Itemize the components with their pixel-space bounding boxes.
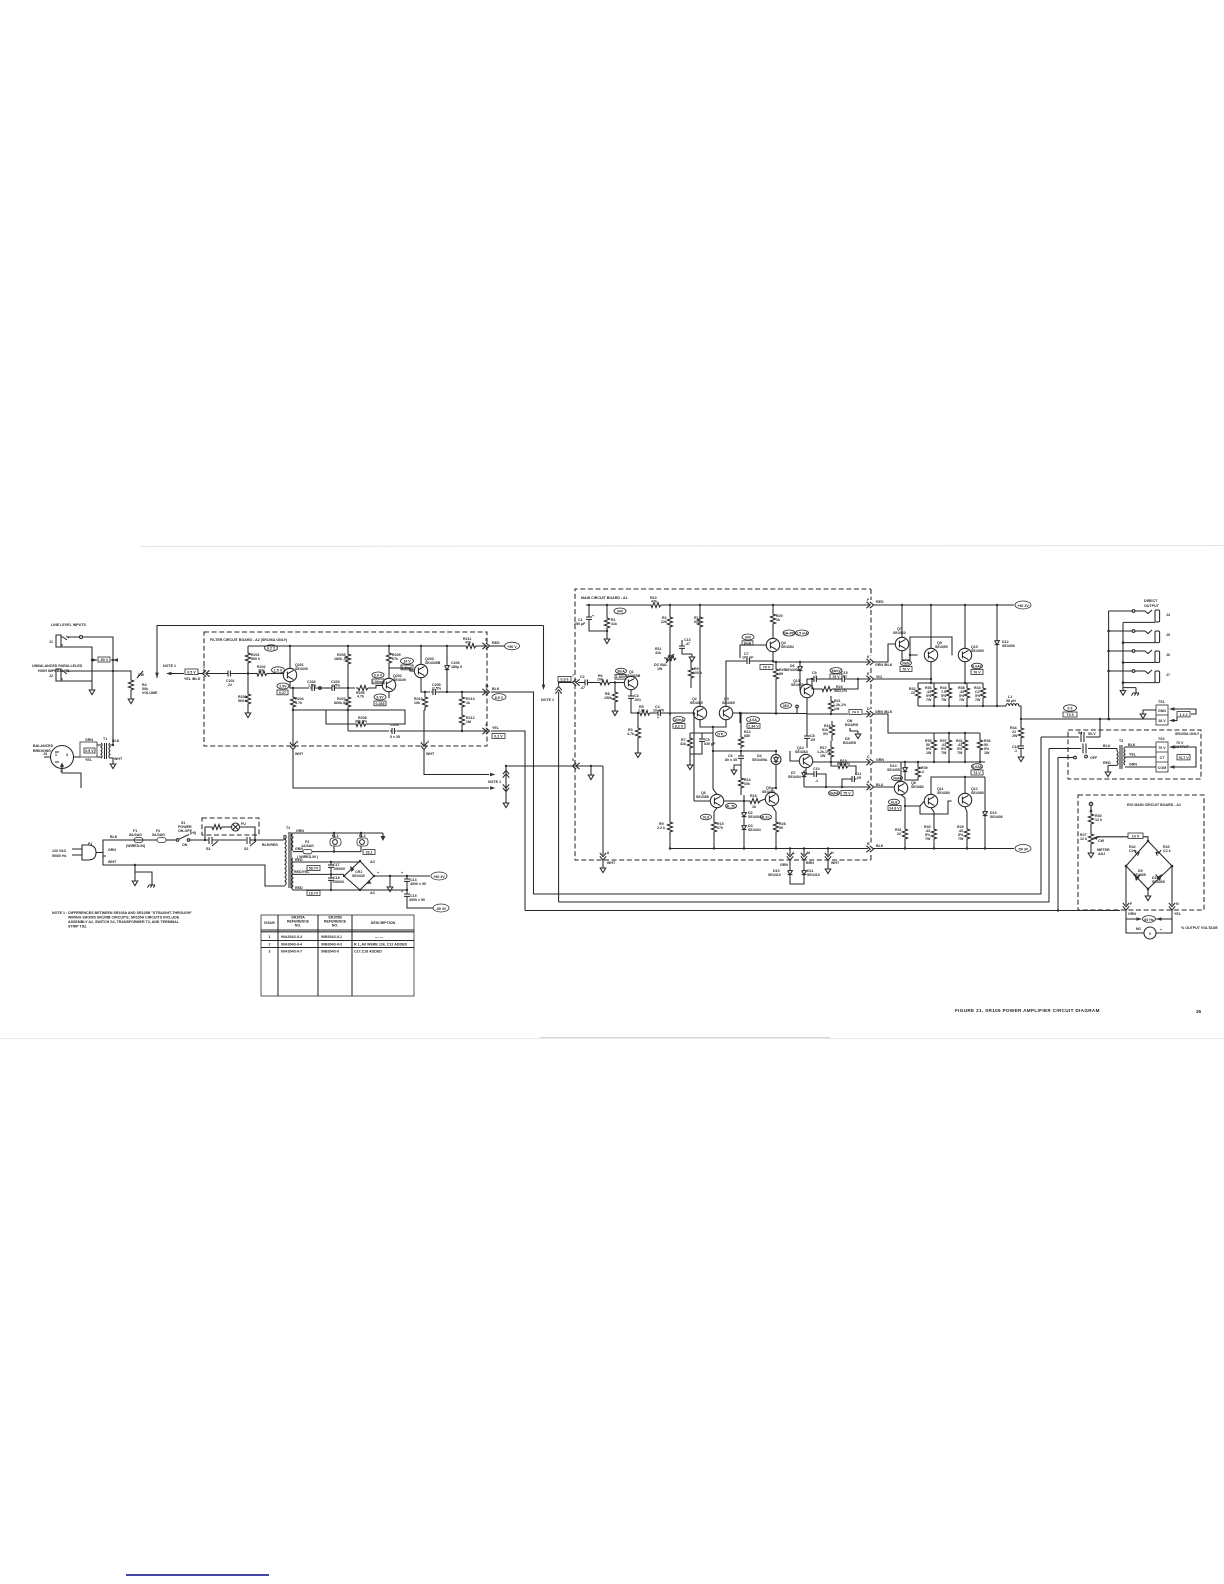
lower driver base link	[905, 801, 952, 814]
svg-text:SE4364: SE4364	[795, 750, 808, 754]
diode D2	[743, 795, 745, 811]
diode D4 in circle	[775, 751, 777, 754]
filter output YEL wire	[348, 730, 485, 732]
metering bridge	[1126, 841, 1172, 889]
resistor R212	[461, 709, 463, 713]
oval OTL	[716, 731, 727, 737]
svg-text:GRN: GRN	[108, 848, 116, 852]
svg-text:BLK/RED: BLK/RED	[262, 843, 278, 847]
svg-text:560 k: 560 k	[251, 657, 260, 661]
resistor R42 arm	[1134, 850, 1139, 856]
resistor R23	[812, 679, 820, 689]
svg-text:BLK: BLK	[1128, 743, 1136, 747]
bottom connector GRN	[787, 853, 793, 860]
svg-text:41k: 41k	[680, 742, 686, 746]
svg-text:COM: COM	[1158, 766, 1166, 770]
resistor R19	[836, 763, 848, 768]
resistor R207	[347, 688, 349, 695]
straight-through rail drop	[543, 626, 545, 686]
svg-text:90A3043-II-3: 90A3043-II-3	[281, 935, 302, 939]
svg-text:11: 11	[485, 684, 489, 688]
svg-text:VIO: VIO	[876, 675, 882, 679]
supply oval +50V psu	[431, 872, 447, 880]
svg-text:47k: 47k	[465, 641, 471, 645]
resistor R9	[690, 660, 692, 666]
oval 36V	[781, 703, 792, 709]
wire through 53V box	[92, 659, 113, 661]
jack J4	[1109, 610, 1132, 612]
svg-text:80 x 35: 80 x 35	[725, 758, 737, 762]
svg-text:PL2: PL2	[359, 834, 366, 838]
svg-text:0 6: 0 6	[1068, 707, 1073, 711]
svg-text:BRN: BRN	[806, 861, 814, 865]
supply oval +50V	[489, 645, 505, 647]
meter M1	[1126, 919, 1172, 933]
ground R203	[247, 706, 249, 710]
svg-text:SR105A ONLY: SR105A ONLY	[1175, 732, 1200, 736]
svg-text:8A/3AG: 8A/3AG	[129, 833, 142, 837]
box 74V on D line	[849, 710, 862, 715]
svg-text:SE4365: SE4365	[690, 701, 703, 705]
label box 53 V	[98, 657, 110, 662]
svg-text:ISSUE: ISSUE	[264, 921, 275, 925]
resistor R206	[356, 685, 368, 690]
svg-text:FILTER CIRCUIT BOARD - A2 (: FILTER CIRCUIT BOARD - A2 (SR106A ONLY)	[210, 638, 288, 642]
svg-text:C204: C204	[390, 723, 399, 727]
main board dashed outline	[575, 589, 871, 683]
transistor Q14	[799, 754, 812, 767]
oval NaN + box 76V under Q7	[901, 660, 912, 666]
svg-text:R 1, A9 WERE 12k, C12 ADDED: R 1, A9 WERE 12k, C12 ADDED	[354, 943, 407, 947]
svg-text:76 V: 76 V	[902, 668, 910, 672]
svg-text:4.7k: 4.7k	[627, 732, 634, 736]
bridge legs to meter	[1125, 866, 1127, 905]
svg-text:34mV: 34mV	[831, 669, 841, 673]
wire A BLU inside	[804, 786, 869, 788]
svg-text:N: N	[1176, 902, 1179, 906]
diode D11	[803, 861, 805, 870]
pin circle	[796, 705, 799, 708]
svg-text:0.2 V: 0.2 V	[494, 735, 503, 739]
svg-text:14 V: 14 V	[1132, 834, 1140, 838]
capacitor C203	[330, 685, 336, 691]
lower base bus	[934, 732, 980, 734]
svg-text:3: 3	[485, 723, 487, 727]
jack J2	[56, 669, 63, 681]
transistor Q7	[895, 637, 908, 650]
wire J3 to T1	[44, 756, 80, 758]
svg-text:J4: J4	[1166, 613, 1170, 617]
svg-text:— —: — —	[375, 935, 384, 939]
svg-text:1W: 1W	[834, 707, 840, 711]
svg-text:NOTE 1: NOTE 1	[488, 780, 501, 784]
resistor R43 arm	[1156, 850, 1161, 856]
oval 0L8 + box 24.8V	[889, 799, 900, 805]
svg-text:12 k: 12 k	[1095, 818, 1102, 822]
svg-text:PL1: PL1	[332, 834, 339, 838]
svg-text:UNBALANCED PARALLELED: UNBALANCED PARALLELED	[32, 664, 83, 668]
svg-text:GRN /BLK: GRN /BLK	[875, 710, 893, 714]
resistor R30	[1088, 812, 1093, 826]
svg-text:7W: 7W	[925, 837, 931, 841]
svg-text:TS2: TS2	[1158, 737, 1165, 741]
svg-text:WHT: WHT	[607, 861, 616, 865]
svg-text:7W: 7W	[959, 698, 965, 702]
bottom-left blue rule	[126, 1574, 269, 1576]
svg-text:A: A	[867, 780, 870, 784]
resistor R32	[917, 683, 919, 686]
svg-text:WHT: WHT	[108, 860, 117, 864]
wire J3 lower loop	[62, 769, 81, 789]
svg-text:8.2 V: 8.2 V	[675, 724, 684, 728]
svg-text:58 µH: 58 µH	[1006, 699, 1016, 703]
svg-text:+: +	[592, 614, 594, 618]
svg-text:T4 5: T4 5	[1066, 713, 1073, 717]
svg-text:270: 270	[717, 826, 723, 830]
collector bus lower	[931, 777, 985, 794]
capacitor C5	[701, 733, 703, 737]
svg-text:SE4349B: SE4349B	[425, 661, 441, 665]
bus wire 3	[525, 910, 1120, 912]
feedback loop R208	[293, 710, 405, 724]
capacitor C16	[1020, 740, 1022, 744]
svg-text:3.3V: 3.3V	[376, 696, 384, 700]
svg-text:22: 22	[911, 691, 915, 695]
svg-text:RED/YEL: RED/YEL	[294, 870, 310, 874]
transistor Q3	[719, 706, 732, 719]
jack J6	[1109, 650, 1132, 652]
capacitor C6	[740, 751, 742, 754]
svg-text:RED: RED	[492, 641, 500, 645]
svg-text:0.265: 0.265	[376, 702, 385, 706]
wiper wire up to straight-through rail	[157, 626, 544, 679]
svg-text:CW: CW	[138, 673, 145, 677]
svg-text:0.6A6: 0.6A6	[972, 765, 982, 769]
svg-text:SE4406: SE4406	[1002, 644, 1015, 648]
svg-text:8mA: 8mA	[744, 642, 752, 646]
svg-text:YEL: YEL	[1174, 912, 1182, 916]
diode D6	[799, 662, 801, 665]
svg-text:J5: J5	[1166, 633, 1170, 637]
T1 wiring	[97, 745, 113, 761]
svg-text:90B3043-II-3: 90B3043-II-3	[321, 943, 342, 947]
resistor R35	[933, 733, 935, 738]
label box 70.7V	[1177, 755, 1190, 760]
svg-text:47k: 47k	[651, 600, 657, 604]
svg-text:6.2 2: 6.2 2	[267, 647, 275, 651]
bottom connector WHT	[825, 853, 831, 860]
svg-text:34V: 34V	[617, 610, 624, 614]
svg-text:30k,5%: 30k,5%	[355, 720, 368, 724]
diode D12	[996, 605, 998, 639]
svg-text:50/60 Hz: 50/60 Hz	[52, 854, 67, 858]
svg-text:YEL: YEL	[1129, 753, 1137, 757]
svg-text:74 V: 74 V	[973, 771, 981, 775]
wire YEL filter output to bus3	[491, 731, 525, 911]
foldout page bottom edge	[0, 1038, 1224, 1040]
oval 4.6mA + box 2.34V	[747, 717, 760, 723]
svg-text:8: 8	[607, 851, 609, 855]
jack sleeve bus	[1122, 622, 1124, 687]
svg-text:2W: 2W	[1012, 734, 1018, 738]
resistor R21	[830, 696, 832, 699]
svg-text:41k: 41k	[655, 651, 661, 655]
svg-text:C2 k: C2 k	[1129, 849, 1137, 853]
wire K GRN/BLK	[773, 661, 869, 662]
resistor R34	[1020, 719, 1022, 726]
capacitor C15	[840, 676, 846, 682]
Q8 emitter chain	[901, 795, 905, 827]
transistor Q203	[414, 664, 427, 677]
svg-text:.1: .1	[815, 779, 818, 783]
svg-text:4000 x 50: 4000 x 50	[410, 882, 426, 886]
filter board dashed outline	[204, 632, 487, 746]
svg-text:SE4365: SE4365	[722, 701, 735, 705]
svg-text:(HI): (HI)	[190, 831, 197, 835]
svg-text:4.6A: 4.6A	[749, 718, 757, 722]
svg-text:% OUTPUT VOLTAGE: % OUTPUT VOLTAGE	[1181, 926, 1218, 930]
label box 142	[1177, 712, 1190, 717]
resistor R13	[740, 714, 742, 736]
svg-text:1k: 1k	[466, 701, 470, 705]
resistor R204	[292, 688, 294, 695]
oval 0L8	[701, 814, 712, 820]
svg-text:.1: .1	[814, 675, 817, 679]
svg-text:SE4390: SE4390	[935, 645, 948, 649]
note1 chevron strap vertical	[505, 768, 507, 800]
edge connector F RED	[866, 602, 873, 608]
svg-text:1.85V: 1.85V	[616, 675, 626, 679]
wire WHT and GRN	[100, 853, 106, 857]
svg-text:S4: S4	[1078, 731, 1082, 735]
svg-text:R18: R18	[750, 794, 757, 798]
resistor R7	[689, 733, 691, 736]
svg-text:16mA: 16mA	[674, 718, 684, 722]
svg-text:79 V: 79 V	[763, 666, 771, 670]
svg-text:SE4405: SE4405	[1152, 880, 1165, 884]
capacitor C15	[406, 890, 408, 892]
transistor Q4	[766, 638, 779, 651]
svg-text:SE4360: SE4360	[893, 631, 906, 635]
ground / METER ADJ	[1090, 846, 1092, 850]
oval 4L5L	[726, 803, 737, 809]
resistor R31	[902, 827, 907, 841]
resistor FU series	[190, 827, 210, 840]
resistor R40	[931, 808, 934, 827]
svg-text:NOTE 1 : DIFFERENCES BETWEE: NOTE 1 : DIFFERENCES BETWEEN SR105A AND …	[52, 911, 192, 915]
board input chevron lower	[572, 763, 579, 769]
-50V rail	[873, 848, 1014, 850]
svg-text:18.7V: 18.7V	[309, 892, 319, 896]
wire bus to volume pot	[113, 671, 131, 678]
svg-text:R/O MAIN CIRCUIT BOARD - A1: R/O MAIN CIRCUIT BOARD - A1	[1127, 803, 1181, 807]
base link Q9 Q10	[910, 637, 952, 655]
svg-text:NOTE 1: NOTE 1	[541, 698, 554, 702]
svg-text:.05/600: .05/600	[333, 867, 345, 871]
capacitor C10	[804, 773, 812, 775]
input network C2 R6	[578, 682, 583, 684]
wire D GRN/BLK to lower bases	[873, 714, 934, 733]
board input chevron upper	[572, 679, 579, 685]
svg-text:1.5 V: 1.5 V	[274, 669, 283, 673]
svg-text:SE4349: SE4349	[295, 667, 308, 671]
svg-text:+: +	[401, 890, 403, 894]
note1 down arrow on wiper	[155, 673, 159, 678]
svg-text:3: 3	[269, 950, 271, 954]
ground C13	[689, 654, 695, 662]
wire J1 tip to input bus	[68, 637, 113, 745]
svg-text:1: 1	[269, 935, 271, 939]
capacitor C202	[310, 685, 316, 691]
svg-text:BLK: BLK	[112, 739, 120, 743]
svg-text:BOARD: BOARD	[843, 741, 857, 745]
svg-text:1M: 1M	[466, 720, 471, 724]
ground branch	[134, 864, 136, 866]
connector chevron filter input	[202, 670, 209, 676]
svg-text:M1: M1	[1136, 927, 1141, 931]
oval 60 Hz	[1143, 916, 1156, 923]
oval 34V + box 79V at K line	[830, 668, 842, 674]
svg-text:SE4382: SE4382	[911, 785, 924, 789]
oval 3.3V + box	[374, 694, 386, 700]
capacitor C9	[812, 676, 818, 682]
svg-text:SE4404: SE4404	[748, 828, 761, 832]
svg-text:DESCRIPTION: DESCRIPTION	[371, 921, 396, 925]
resistor R5	[638, 710, 650, 715]
svg-text:T1: T1	[103, 737, 107, 741]
resistor R201	[247, 646, 249, 651]
label box 18.7V	[307, 891, 320, 896]
ground T1 secondary	[110, 761, 116, 769]
diode D13	[984, 777, 986, 810]
svg-text:1.8k: 1.8k	[638, 709, 645, 713]
svg-text:2.2 k: 2.2 k	[657, 826, 665, 830]
svg-text:ASSEMBLY A2, SWITCH S4, TR: ASSEMBLY A2, SWITCH S4, TRANSFORMER T3, …	[68, 920, 180, 924]
svg-text:1W: 1W	[984, 751, 990, 755]
capacitor C7	[745, 658, 751, 664]
svg-text:SE4333: SE4333	[762, 790, 775, 794]
filter +50V rail	[248, 645, 485, 647]
svg-text:0L8: 0L8	[891, 801, 897, 805]
svg-text:D: D	[867, 707, 870, 711]
svg-text:4000 x 50: 4000 x 50	[409, 898, 425, 902]
svg-text:0L8: 0L8	[703, 816, 709, 820]
diode D9	[1134, 874, 1140, 881]
capacitor C205	[431, 689, 437, 695]
svg-text:1: 1	[55, 753, 57, 757]
svg-text:K: K	[867, 655, 870, 659]
svg-text:SE4405: SE4405	[887, 768, 900, 772]
svg-text:60 Hz: 60 Hz	[1144, 918, 1154, 922]
svg-text:12 k: 12 k	[1080, 837, 1087, 841]
box 79V	[760, 665, 773, 670]
resistor R8	[614, 683, 616, 691]
transistor Q1	[624, 676, 637, 689]
TS1 jumper wires	[1169, 707, 1175, 711]
svg-text:3mA: 3mA	[617, 670, 625, 674]
emitter bus	[918, 682, 983, 684]
bridge rectifier CR1	[344, 861, 374, 890]
svg-text:+: +	[1160, 928, 1162, 932]
svg-text:SE4358: SE4358	[696, 795, 709, 799]
oval 0.6A + box 76V under Q10	[972, 663, 983, 669]
resistor R12	[699, 605, 701, 615]
svg-text:NaN: NaN	[893, 777, 901, 781]
svg-text:.47: .47	[685, 642, 690, 646]
oval 34V	[614, 608, 626, 614]
T3 primary bottom RED	[1108, 765, 1117, 769]
svg-text:GRN: GRN	[85, 738, 93, 742]
resistor R46	[979, 733, 981, 738]
wire filter WHT left leg	[293, 750, 489, 788]
svg-text:4.7k: 4.7k	[295, 701, 302, 705]
svg-text:GRN: GRN	[1129, 763, 1137, 767]
board bottom rail	[670, 848, 868, 850]
svg-text:2: 2	[427, 740, 429, 744]
svg-text:74 V: 74 V	[852, 711, 860, 715]
connector J3	[51, 746, 74, 769]
svg-text:79 V: 79 V	[832, 675, 840, 679]
svg-text:SE4410: SE4410	[807, 873, 820, 877]
svg-text:3.9 V: 3.9 V	[374, 674, 383, 678]
transistor Q6	[710, 794, 723, 807]
svg-text:OFF: OFF	[1090, 756, 1098, 760]
svg-text:22: 22	[897, 832, 901, 836]
bottom connector BRN	[801, 853, 807, 860]
resistor R28	[772, 806, 776, 820]
svg-text:250 µF: 250 µF	[574, 622, 586, 626]
svg-text:4: 4	[296, 740, 298, 744]
transistor Q12	[958, 793, 971, 806]
svg-text:2: 2	[269, 943, 271, 947]
diode D3	[743, 818, 745, 824]
svg-text:.22: .22	[227, 683, 232, 687]
resistor R10 inline	[649, 602, 661, 607]
svg-text:RED: RED	[1103, 761, 1111, 765]
T3 secondary wires	[1125, 746, 1156, 748]
resistor R18	[748, 798, 760, 803]
ground C6	[734, 765, 741, 767]
svg-text:SH-PD: SH-PD	[783, 632, 795, 636]
svg-text:39: 39	[779, 672, 783, 676]
svg-text:GRN /BLK: GRN /BLK	[875, 663, 893, 667]
svg-text:.05: .05	[810, 738, 815, 742]
trimmer R11 DC BAL	[664, 655, 676, 660]
jack bus grounds	[1123, 688, 1136, 690]
svg-text:36V: 36V	[783, 704, 790, 708]
svg-text:T3: T3	[1119, 739, 1123, 743]
svg-text:90B3043-II-1: 90B3043-II-1	[321, 935, 342, 939]
oval 3mA + box 1.85V	[616, 668, 627, 674]
svg-text:WHT: WHT	[831, 861, 840, 865]
wire Q6 base feed	[693, 714, 695, 802]
resistor R202	[232, 673, 255, 675]
svg-text:5 x 35: 5 x 35	[390, 735, 400, 739]
svg-text:YEL: YEL	[85, 758, 93, 762]
svg-text:T2: T2	[286, 826, 290, 830]
svg-text:1W: 1W	[820, 754, 826, 758]
svg-text:C2 k: C2 k	[1163, 849, 1171, 853]
transistor Q201	[283, 668, 296, 681]
wire E VIO	[807, 679, 812, 684]
volume pot R4	[128, 678, 133, 692]
svg-text:SE4349: SE4349	[393, 678, 406, 682]
svg-text:620: 620	[694, 620, 700, 624]
diode D14	[904, 762, 906, 766]
svg-text:.1: .1	[1014, 749, 1017, 753]
svg-text:41k: 41k	[611, 622, 617, 626]
svg-text:C10: C10	[813, 767, 820, 771]
